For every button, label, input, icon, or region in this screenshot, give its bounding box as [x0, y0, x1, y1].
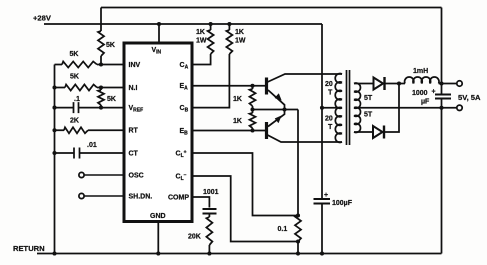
wire secondary bottom to D2 — [354, 131, 373, 133]
svg-text:RT: RT — [129, 128, 139, 135]
svg-text:RETURN: RETURN — [13, 244, 45, 253]
svg-text:5T: 5T — [364, 95, 373, 102]
resistor R5 2K (RT) — [64, 127, 88, 133]
resistor R2 5K (INV to left rail) — [62, 62, 97, 68]
wire +28V drop to transformer center tap — [321, 24, 323, 199]
terminal output - circle — [457, 105, 462, 110]
svg-text:INV: INV — [129, 62, 141, 69]
wire CL- to 0.1 sense bottom — [192, 176, 298, 242]
transistor Q2 collector — [268, 135, 343, 142]
resistor R6 1K 1W (CA collector load) — [208, 30, 214, 54]
svg-text:5K: 5K — [70, 74, 79, 81]
svg-text:1K: 1K — [196, 29, 205, 36]
resistor R11 20K compensation — [206, 217, 212, 245]
transformer T1 secondary upper winding 5T — [354, 83, 360, 92]
resistor R1 5K (feedback upper divider) — [98, 31, 104, 56]
svg-text:1W: 1W — [196, 38, 207, 45]
wire D1 to L1 — [384, 83, 405, 85]
svg-text:1001: 1001 — [203, 189, 219, 196]
wire L1 to output terminal — [439, 83, 457, 85]
wire R11 to ground — [208, 245, 210, 254]
wire CA to R6 — [192, 54, 211, 65]
transformer T1 primary upper winding 20T — [335, 74, 342, 83]
wire secondary center tap to output return — [354, 107, 457, 109]
svg-text:5K: 5K — [106, 42, 115, 49]
wire VREF line — [55, 107, 125, 109]
svg-text:µF: µF — [421, 99, 430, 106]
svg-text:GND: GND — [150, 213, 166, 220]
svg-text:T: T — [328, 90, 333, 97]
wire COMP to C3 — [192, 197, 209, 208]
pin GND stub to ground rail — [157, 222, 159, 254]
terminal OSC open circle — [79, 172, 84, 177]
svg-text:20K: 20K — [188, 234, 201, 241]
wire EA to Q1 base — [192, 85, 267, 87]
resistor R3 5K (N.I) — [65, 85, 97, 91]
transformer T1 primary lower winding 20T — [335, 107, 342, 116]
wire R7 top — [228, 24, 230, 30]
svg-text:+: + — [432, 89, 436, 96]
wire OSC stub — [84, 174, 124, 176]
svg-text:CT: CT — [129, 150, 139, 157]
capacitor C1 .1 (VREF) — [74, 102, 79, 113]
capacitor C2 .01 (CT) — [74, 148, 80, 159]
transformer T1 secondary lower winding 5T — [354, 107, 360, 116]
wire N.I line — [55, 87, 125, 89]
wire R1 to INV node — [100, 56, 102, 65]
op IC U1 SG3524 PWM regulator box — [124, 43, 192, 222]
wire C3 to R11 — [208, 214, 210, 218]
svg-text:1000: 1000 — [412, 90, 428, 97]
wire emitters to current sense — [297, 110, 299, 216]
wire D2 up to rectified node — [384, 84, 400, 133]
diode D2 — [373, 126, 383, 138]
wire feedback drop to resistor R1 — [100, 8, 102, 32]
svg-text:1K: 1K — [235, 29, 244, 36]
svg-text:5T: 5T — [364, 111, 373, 118]
junction dots — [157, 22, 161, 26]
svg-text:COMP: COMP — [168, 194, 189, 201]
inductor L1 1mH — [405, 77, 414, 83]
svg-text:1K: 1K — [233, 118, 242, 125]
resistor R9 1K (Q2 base-emitter) — [252, 110, 254, 131]
wire SH.DN. stub — [84, 195, 124, 197]
resistor R10 0.1 current sense — [295, 216, 301, 242]
svg-text:20: 20 — [325, 116, 333, 123]
wire CB to R7 — [192, 54, 229, 108]
transistor Q1 emitter with arrow — [268, 90, 285, 110]
svg-text:SH.DN.: SH.DN. — [129, 193, 153, 200]
svg-text:5K: 5K — [107, 96, 116, 103]
ground return rail — [37, 253, 442, 255]
svg-text:T: T — [328, 124, 333, 131]
wire primary center tap — [322, 107, 342, 109]
transistor Q2 lower NPN base bar — [265, 122, 268, 139]
svg-text:+: + — [324, 192, 328, 199]
svg-text:2K: 2K — [70, 118, 79, 125]
+28V supply rail — [44, 23, 322, 25]
transistor Q1 upper NPN base bar — [265, 78, 268, 95]
svg-text:20: 20 — [325, 81, 333, 88]
wire secondary top to D1 — [354, 83, 374, 85]
wire RT line — [55, 129, 125, 131]
wire EB to Q2 base — [192, 130, 267, 132]
resistor R8 1K (Q1 base-emitter) — [252, 86, 254, 110]
terminal SH.DN. open circle — [79, 193, 84, 198]
svg-text:5V, 5A: 5V, 5A — [458, 93, 481, 102]
svg-text:1W: 1W — [235, 38, 246, 45]
diode D1 — [374, 78, 384, 90]
svg-text:N.I: N.I — [129, 85, 138, 92]
pin VIN stub — [158, 24, 160, 43]
wire R10 to ground rail — [297, 242, 299, 254]
capacitor C4 100uF bypass — [314, 199, 331, 204]
top feedback wire from output to 5K/INV divider — [101, 7, 442, 9]
transformer T1 core — [347, 70, 350, 145]
svg-text:OSC: OSC — [129, 172, 144, 179]
transistor Q2 emitter with arrow — [268, 110, 285, 127]
svg-text:1K: 1K — [233, 96, 242, 103]
resistor R7 1K 1W (CB collector load) — [226, 30, 232, 54]
svg-text:100µF: 100µF — [332, 200, 353, 207]
wire CT line — [55, 152, 125, 154]
capacitor C3 .001 compensation — [203, 209, 217, 214]
svg-text:.1: .1 — [74, 96, 80, 103]
wire R6 top — [210, 24, 212, 30]
wire INV line — [55, 64, 125, 66]
terminal output + circle — [457, 81, 462, 86]
svg-text:+28V: +28V — [33, 14, 52, 23]
wire C4 to ground rail — [321, 204, 323, 254]
svg-text:1mH: 1mH — [413, 68, 428, 75]
left rail (lower divider / ground side) — [54, 65, 56, 254]
resistor R4 5K (N.I to VREF) — [100, 88, 102, 108]
svg-text:5K: 5K — [70, 51, 79, 58]
capacitor C5 1000uF output — [435, 95, 451, 99]
wire CL+ to 0.1 sense top — [192, 153, 298, 216]
wire right vertical feedback/output — [441, 8, 443, 254]
transistor Q1 collector — [268, 74, 343, 82]
svg-text:0.1: 0.1 — [278, 226, 288, 233]
wire emitter common line — [253, 109, 299, 111]
svg-text:.01: .01 — [87, 142, 97, 149]
